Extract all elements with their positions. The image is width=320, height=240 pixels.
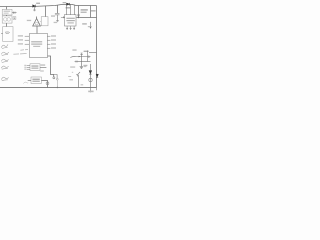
label net — [63, 2, 66, 3]
label ladder text1 — [81, 9, 88, 10]
label ladder text3 — [91, 10, 96, 11]
lamp LP1 circle — [89, 78, 92, 81]
label U4 line3 — [67, 22, 73, 23]
diode D4 on x90 — [90, 64, 92, 88]
box T1 transformer — [41, 17, 48, 26]
capacitor C2 — [55, 14, 60, 15]
arrowhead on line1 — [79, 56, 81, 57]
capacitor ticks across lines — [88, 55, 89, 58]
pin U2 left 1 — [27, 64, 30, 66]
label pin right 4 — [51, 47, 56, 48]
socket circle left — [4, 18, 8, 22]
meter symbol — [5, 32, 9, 34]
note A2b — [13, 53, 26, 56]
label D1 value — [36, 3, 40, 4]
pin U1 right 2 — [47, 39, 50, 41]
capacitor C1 — [12, 12, 17, 14]
label U4 line2 — [66, 20, 74, 21]
pin U4 bottom 3 — [73, 26, 75, 29]
terminal circle TP2 — [56, 78, 58, 80]
label branch — [84, 51, 89, 52]
ladder horizontal — [76, 17, 96, 19]
diode D3 bowtie — [46, 82, 49, 85]
note A5 — [1, 66, 8, 69]
label U4 line1 — [66, 18, 74, 19]
D4 body — [89, 71, 92, 75]
label U4 right — [77, 14, 80, 16]
pin U1 left 1 — [25, 35, 29, 37]
wire probe arrow x90 — [90, 22, 92, 28]
label pin right 2 — [51, 39, 56, 40]
wire stub M1 left — [1, 33, 3, 35]
component K1 small relay — [13, 17, 16, 20]
pin U4 bottom 1 — [66, 26, 68, 29]
label dash — [68, 76, 71, 77]
diode D1 — [33, 5, 36, 8]
arrow into U4 — [61, 17, 65, 18]
label y79 — [69, 79, 73, 80]
note A1 — [1, 44, 8, 48]
label PS1 text1 — [4, 11, 11, 12]
wire branch right bus y52 — [89, 52, 97, 54]
diode D2 — [67, 3, 70, 6]
wire U1 bottom pin down — [48, 56, 54, 77]
pin U2 left 3 — [27, 68, 30, 70]
transistor Q1 vertical — [81, 53, 83, 62]
wire drop to T1 box — [45, 6, 47, 17]
pin U1 right 3 — [47, 43, 50, 45]
note A3 — [1, 52, 9, 55]
box PS2 dual socket — [2, 16, 12, 23]
label TR — [27, 20, 31, 21]
ground GND1 — [80, 62, 84, 68]
label pin right 1 — [51, 35, 56, 36]
wire into U3 — [28, 80, 31, 82]
label U2 text2 — [31, 68, 38, 69]
meter inner marks — [5, 31, 9, 34]
pin U1 left 3 — [25, 43, 29, 45]
wire bottom ground rail — [0, 87, 97, 89]
label PS1 text2 — [4, 13, 9, 14]
diode ticks on line2 — [76, 60, 77, 62]
diode D5 on right bus — [96, 74, 98, 77]
note A7 curl — [23, 82, 28, 84]
pin U1 left 2 — [25, 39, 29, 41]
label C2 — [51, 15, 55, 16]
label D2 value — [66, 7, 71, 8]
box PS1 input module — [2, 9, 12, 15]
label pin left 3 — [18, 43, 23, 44]
label probe — [82, 23, 87, 24]
label U1 line1 — [31, 41, 42, 42]
note A4 — [1, 59, 8, 62]
label mid right texts — [70, 66, 75, 67]
pin U2 left 2 — [27, 66, 30, 68]
terminal circle TP1 — [53, 77, 55, 79]
box U4 output module — [65, 15, 77, 27]
Q1 tick marks — [80, 53, 83, 55]
wire top supply rail — [0, 4, 97, 6]
pin U4 bottom 2 — [70, 26, 72, 29]
label above rail x81 — [81, 84, 84, 85]
label left of U4 pins — [54, 22, 58, 23]
label right of lines — [72, 49, 76, 50]
label U1 line3 — [33, 46, 40, 47]
socket circle right — [7, 18, 11, 22]
junction dot — [78, 17, 79, 18]
junction at rail — [57, 87, 58, 88]
wire U3 to D3 — [41, 81, 47, 88]
wire C2 to ground — [56, 15, 59, 22]
wire stub PS1 to PS2 — [6, 14, 8, 17]
IC U1 main controller — [30, 34, 48, 58]
box M1 meter — [3, 27, 13, 42]
triangle lamp symbol — [33, 17, 41, 27]
pin U1 right 1 — [47, 35, 50, 37]
lamp circle — [35, 23, 38, 25]
wire Q2 to rail — [78, 75, 80, 88]
label below rail — [88, 91, 93, 93]
label U2 out — [41, 64, 46, 65]
wire stub PS2 down — [6, 23, 8, 27]
wire stub rail to PS1 — [6, 7, 8, 10]
label pin right 3 — [51, 43, 56, 44]
wire TP2 hook — [54, 75, 57, 79]
wire TP2 to ground rail — [56, 80, 58, 87]
box U2 aux module — [30, 64, 40, 71]
ladder vertical R10 — [78, 6, 80, 18]
wire drop x57 — [57, 5, 59, 13]
pin U1 right 4 — [47, 47, 50, 49]
label U2 text — [31, 65, 38, 66]
label U1 line2 — [31, 44, 42, 45]
annotation squiggles (hand written) — [1, 44, 28, 83]
stub below rail x97 — [96, 88, 98, 91]
wire U2 out right — [40, 67, 46, 69]
wire triangle to T1 — [39, 21, 42, 23]
pin U4 top 1 — [66, 4, 68, 15]
label near GND1 — [83, 65, 87, 66]
label pin left 2 — [18, 39, 23, 40]
label x84 y66 — [84, 66, 86, 67]
label U3 line1 — [32, 79, 39, 80]
wire h line1 — [70, 55, 90, 58]
vertical x87.6 — [87, 50, 89, 61]
box U3 regulator — [31, 77, 41, 83]
label dot — [72, 72, 73, 73]
stub below rail x90 — [90, 88, 92, 93]
wire tap below D1 — [33, 7, 36, 11]
pin U4 top 2 — [70, 4, 72, 15]
K1 contact dot — [14, 18, 15, 19]
note A6 — [1, 77, 8, 81]
note A2a — [20, 49, 28, 52]
transistor Q2 slash — [77, 72, 80, 76]
wire right bus — [96, 6, 98, 88]
label U3 line2 — [32, 81, 39, 82]
label pin left 1 — [18, 35, 23, 36]
label U2 pins — [24, 65, 26, 66]
label probe2 — [88, 26, 91, 27]
label under wire — [40, 70, 44, 71]
wire h line2 — [75, 61, 91, 63]
pin U4 top 3 — [74, 5, 76, 15]
label ladder text2 — [81, 12, 87, 13]
wire triangle to U1 — [36, 26, 38, 34]
ladder vertical R11 — [90, 6, 92, 18]
